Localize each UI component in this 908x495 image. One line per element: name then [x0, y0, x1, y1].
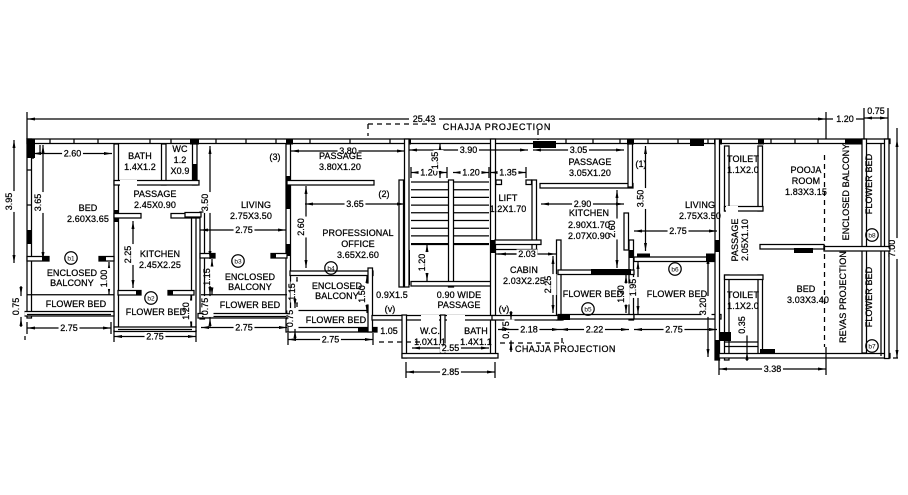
svg-text:LIVING: LIVING — [685, 200, 715, 210]
dimension 1.20 stair a — [411, 168, 447, 178]
dimension 0.75 flower flat1 — [11, 286, 25, 327]
svg-text:3.65X2.60: 3.65X2.60 — [337, 250, 379, 260]
wall: right strip middle — [824, 247, 890, 252]
svg-text:OFFICE: OFFICE — [341, 239, 375, 249]
svg-text:3.90: 3.90 — [460, 145, 478, 155]
svg-text:1.20: 1.20 — [836, 114, 854, 124]
dimension 1.20 stair landing — [417, 244, 431, 281]
wall: office top — [287, 181, 374, 186]
dimension 0.35 — [737, 315, 751, 361]
dimension 1.35 lift — [490, 168, 526, 178]
column top flat divider — [714, 139, 722, 145]
wall: toilet1 left — [725, 146, 730, 211]
dimension 2.60 kitchen right — [607, 190, 621, 268]
wall: office right / stair left — [399, 180, 404, 287]
svg-text:7.00: 7.00 — [887, 240, 897, 258]
wall: b5/b6 divider — [629, 240, 634, 320]
solid b6 balcony top right — [706, 254, 715, 263]
svg-text:(3): (3) — [269, 152, 280, 162]
svg-text:(v): (v) — [499, 304, 510, 314]
column top stair-left — [404, 139, 411, 145]
svg-text:b2: b2 — [147, 295, 155, 302]
svg-text:(v): (v) — [385, 304, 396, 314]
wall: flat2 kitchen bottom right piece — [168, 291, 194, 296]
svg-text:PASSAGE: PASSAGE — [730, 218, 740, 261]
dashed chajja small left — [379, 341, 420, 343]
dashed line right flat — [824, 155, 826, 347]
column top wc-right — [190, 139, 199, 145]
solid jamb bed bottom b — [99, 257, 106, 262]
svg-text:b7: b7 — [868, 343, 876, 350]
svg-text:1.1X2.0: 1.1X2.0 — [727, 165, 759, 175]
flower line b4 — [290, 310, 373, 312]
dimension 3.65 left — [33, 145, 47, 260]
solid chunk living right wall — [286, 176, 291, 209]
dimension 1.20 top right — [826, 118, 864, 120]
solid jamb kitchen bottom a — [136, 291, 141, 296]
dimension 2.75 b4 bottom — [288, 335, 373, 345]
dimension 1.15 b4 — [287, 277, 301, 307]
bubble b5 — [582, 303, 594, 315]
svg-text:0.75: 0.75 — [285, 310, 295, 328]
door gap wc — [421, 315, 439, 321]
svg-text:2.45X2.25: 2.45X2.25 — [139, 260, 181, 270]
dimension 2.85 — [406, 367, 495, 377]
svg-text:BED: BED — [79, 203, 98, 213]
svg-text:3.03X3.40: 3.03X3.40 — [787, 295, 829, 305]
wall: toilet1 right — [758, 146, 763, 211]
svg-text:2.75: 2.75 — [235, 323, 253, 333]
svg-text:CHAJJA PROJECTION: CHAJJA PROJECTION — [515, 344, 616, 354]
svg-text:2.03X2.25: 2.03X2.25 — [503, 276, 545, 286]
wall: cabin top — [495, 240, 541, 245]
svg-text:PROFESSIONAL: PROFESSIONAL — [322, 228, 393, 238]
dimension 0.75 top right — [864, 106, 888, 139]
svg-text:ROOM: ROOM — [792, 176, 820, 186]
svg-text:b8: b8 — [868, 232, 876, 239]
svg-text:2.45X0.90: 2.45X0.90 — [134, 200, 176, 210]
dimension 1.35 vertical — [430, 143, 444, 178]
svg-text:FLOWER BED: FLOWER BED — [220, 300, 281, 310]
bubble b7 — [866, 340, 878, 352]
svg-text:2.75: 2.75 — [669, 226, 687, 236]
dimension 3.95 left — [4, 140, 18, 263]
solid b5 bottom left — [558, 315, 570, 321]
wall: toilet1 bottom — [725, 207, 764, 212]
wall: lift bottom — [492, 250, 538, 255]
dashed chajja bottom — [500, 342, 564, 344]
svg-text:ENCLOSED: ENCLOSED — [225, 272, 276, 282]
inner line right strip — [880, 143, 882, 356]
wall: b4 balcony top — [290, 271, 373, 276]
svg-text:BATH: BATH — [464, 326, 488, 336]
b3 bottom inner line — [202, 316, 286, 318]
dimension 0.75 b3 — [200, 286, 214, 327]
svg-text:2.60X3.65: 2.60X3.65 — [67, 214, 109, 224]
toilet2 shelf b — [725, 346, 758, 348]
svg-text:LIFT: LIFT — [499, 193, 518, 203]
dimension 2.75 b6 bottom — [634, 325, 717, 335]
solid cabin left — [491, 240, 496, 253]
column top living-left-wall — [286, 139, 293, 145]
svg-text:PASSAGE: PASSAGE — [133, 189, 176, 199]
solid jamb b3 balcony b — [271, 254, 276, 259]
solid divider mid — [715, 240, 720, 252]
dimension 2.90 kitchen — [541, 199, 624, 209]
svg-text:b6: b6 — [671, 266, 679, 273]
wall: b6 / right flat divider — [715, 139, 720, 360]
dimension 1.15 b3 — [202, 259, 216, 295]
dimension 3.65 office — [305, 199, 405, 209]
svg-text:FLOWER BED: FLOWER BED — [563, 289, 624, 299]
svg-text:2.85: 2.85 — [442, 367, 460, 377]
dimension 3.50 living left — [200, 146, 214, 259]
solid pooja bottom — [794, 248, 813, 253]
dimension 1.00 balcony b1 — [99, 262, 113, 295]
wall piece stair top b — [526, 180, 532, 185]
dimension 3.80 passage — [291, 146, 405, 156]
wall: b5 flower top — [558, 270, 634, 275]
wall: flat1 bottom — [24, 312, 114, 317]
svg-text:b5: b5 — [584, 306, 592, 313]
svg-text:3.65: 3.65 — [346, 199, 364, 209]
svg-text:KITCHEN: KITCHEN — [140, 249, 180, 259]
flower bed line flat1 — [27, 294, 114, 296]
svg-text:3.50: 3.50 — [200, 194, 210, 212]
door gap bath — [120, 180, 137, 186]
svg-text:2.07X0.90: 2.07X0.90 — [568, 231, 610, 241]
small dash bottom left — [24, 336, 26, 340]
svg-text:ENCLOSED: ENCLOSED — [312, 281, 363, 291]
wall: passage1 right — [628, 144, 633, 187]
wall: top outer — [27, 139, 890, 144]
svg-text:3.05: 3.05 — [570, 145, 588, 155]
svg-text:1.0X1.1: 1.0X1.1 — [414, 337, 446, 347]
svg-text:(2): (2) — [378, 189, 389, 199]
solid cabin left low — [491, 315, 496, 320]
wall: wc right upper — [193, 144, 198, 185]
wall: below passage right piece — [171, 214, 199, 219]
svg-text:CABIN: CABIN — [510, 265, 538, 275]
wall: cabin bottom — [492, 316, 563, 321]
dimension 1.30 b5 — [616, 275, 630, 313]
wall: b3 bottom — [198, 314, 290, 319]
solid chunk stair left wall — [404, 250, 410, 285]
wall: flat2 kitchen bottom left piece — [118, 291, 141, 296]
solid jamb kitchen bottom b — [168, 291, 173, 296]
svg-text:1.4X1.1: 1.4X1.1 — [460, 337, 492, 347]
chajja dashes top — [368, 123, 440, 125]
svg-text:1.4X1.2: 1.4X1.2 — [124, 162, 156, 172]
dimension 0.75 center — [501, 311, 515, 351]
svg-text:2.25: 2.25 — [123, 246, 133, 264]
dimension 3.90 stairs — [409, 145, 528, 155]
door gap toilet1 — [726, 206, 738, 212]
svg-text:FLOWER BED: FLOWER BED — [864, 266, 874, 327]
svg-text:CHAJJA PROJECTION: CHAJJA PROJECTION — [443, 122, 551, 132]
solid wc right — [193, 164, 198, 185]
toilet2 shelf a — [725, 341, 758, 343]
wall: bath-kitchen left x114 — [114, 144, 119, 327]
svg-text:ENCLOSED BALCONY: ENCLOSED BALCONY — [841, 144, 851, 241]
dimension 0.75 b4 — [285, 298, 299, 339]
svg-text:BALCONY: BALCONY — [315, 291, 359, 301]
dimension 2.25 kitchen flat1 — [123, 221, 137, 288]
solid toilet2 bottom-left — [719, 332, 731, 341]
bubble b1 — [65, 252, 77, 264]
svg-text:1.83X3.15: 1.83X3.15 — [785, 187, 827, 197]
svg-text:2.75: 2.75 — [60, 323, 78, 333]
svg-text:BALCONY: BALCONY — [228, 282, 272, 292]
wall: wc bath bottom — [402, 354, 498, 359]
wall: flat2 bottom — [114, 327, 196, 332]
dimension 1.20 stair b — [453, 168, 489, 178]
wall: bed room bottom right piece — [99, 257, 114, 262]
svg-text:REVAS PROJECTION: REVAS PROJECTION — [838, 251, 848, 343]
flat1 bottom inner line — [27, 314, 111, 316]
svg-text:3.80X1.20: 3.80X1.20 — [319, 162, 361, 172]
wall: stair bottom landing — [411, 282, 495, 287]
wall: bed room bottom left piece — [27, 257, 49, 262]
dimension 1.20 flower b2 — [181, 295, 195, 327]
dimension 2.18 — [498, 325, 560, 335]
column top right balcony — [845, 139, 862, 145]
svg-text:TOILET: TOILET — [727, 290, 759, 300]
svg-text:25.43: 25.43 — [413, 114, 436, 124]
dimension 2.03 cabin — [498, 249, 556, 259]
svg-text:1.00: 1.00 — [99, 270, 109, 288]
wall: b6 bottom — [634, 315, 721, 320]
svg-text:0.75: 0.75 — [867, 106, 885, 116]
svg-text:3.20: 3.20 — [698, 298, 708, 316]
dimension 2.22 — [560, 325, 629, 335]
svg-text:3.38: 3.38 — [764, 364, 782, 374]
svg-text:b1: b1 — [67, 255, 75, 262]
svg-text:3.65: 3.65 — [33, 194, 43, 212]
svg-text:1.20: 1.20 — [462, 168, 480, 178]
svg-text:FLOWER BED: FLOWER BED — [647, 289, 708, 299]
dimension 1.50 b4 — [357, 275, 371, 313]
wall: bath wc bottom — [114, 181, 199, 186]
wall: b5 bottom — [558, 315, 634, 320]
solid bottom right — [760, 349, 775, 354]
wall: stair left inner — [405, 139, 410, 287]
dimension 2.60 office — [296, 186, 310, 268]
svg-text:2.75X3.50: 2.75X3.50 — [230, 211, 272, 221]
bubble b8 — [866, 229, 878, 241]
svg-text:1.95: 1.95 — [628, 279, 638, 297]
column top living-right — [690, 139, 704, 146]
chajja dashes top corner — [367, 124, 369, 136]
svg-text:2.75: 2.75 — [235, 225, 253, 235]
svg-text:0.9X1.5: 0.9X1.5 — [376, 290, 408, 300]
lift walls — [532, 180, 537, 254]
flower line b3 — [201, 294, 287, 296]
door gap bath — [447, 315, 465, 321]
column flat1 kitchen left — [114, 210, 119, 222]
wall: b4 balcony right — [368, 268, 373, 332]
svg-text:1.35: 1.35 — [499, 168, 517, 178]
window tick left wall a — [27, 169, 32, 171]
wall: kitchen right jog — [624, 213, 629, 250]
svg-text:2.75: 2.75 — [322, 335, 340, 345]
wall: passage1 bottom — [540, 184, 633, 189]
dimension 2.75 flat2 bottom — [114, 332, 196, 342]
svg-text:2.60: 2.60 — [296, 218, 306, 236]
svg-text:2.05X1.10: 2.05X1.10 — [740, 219, 750, 261]
wall: bottom right — [719, 354, 890, 359]
svg-text:PASSAGE: PASSAGE — [437, 300, 480, 310]
svg-text:2.03: 2.03 — [518, 249, 536, 259]
bubble b4 — [325, 262, 337, 274]
svg-text:BATH: BATH — [128, 151, 152, 161]
wall: flat1/b3 divider lower — [192, 215, 197, 327]
svg-text:0.35: 0.35 — [737, 316, 747, 334]
wall piece left of living bottom — [185, 213, 201, 218]
dimension 3.20 — [698, 256, 712, 357]
chajja dash top right — [537, 130, 539, 140]
solid jamb b3 balcony a — [210, 254, 215, 259]
wall: b3 balcony top right piece — [271, 254, 287, 259]
svg-text:0.75: 0.75 — [11, 298, 21, 316]
svg-text:FLOWER BED: FLOWER BED — [126, 307, 187, 317]
svg-text:KITCHEN: KITCHEN — [569, 208, 609, 218]
svg-text:b4: b4 — [327, 265, 335, 272]
svg-text:0.75: 0.75 — [200, 298, 210, 316]
bubble b3 — [232, 255, 244, 267]
svg-text:2.90X1.70: 2.90X1.70 — [568, 220, 610, 230]
column: top wall notch right of stairs — [533, 141, 556, 148]
svg-text:(1): (1) — [635, 159, 646, 169]
svg-text:3.05X1.20: 3.05X1.20 — [569, 168, 611, 178]
wall: wc/bath divider — [441, 315, 446, 354]
svg-text:FLOWER BED: FLOWER BED — [306, 315, 367, 325]
dimension 2.25 cabin — [543, 256, 557, 313]
column left wall lower — [27, 230, 32, 244]
svg-text:2.75: 2.75 — [146, 332, 164, 342]
wall: wc left — [402, 315, 407, 358]
wall: left outer — [27, 139, 32, 318]
svg-text:1.15: 1.15 — [202, 268, 212, 286]
wall: b6 balcony top — [634, 257, 719, 262]
small dash bottom right — [893, 357, 900, 359]
column top-left — [27, 139, 35, 158]
wall: toilet2 top — [725, 275, 764, 280]
column top passage1-right — [627, 139, 634, 145]
svg-text:3.95: 3.95 — [4, 193, 14, 211]
wall: pooja bottom — [760, 245, 824, 250]
wall: bath/wc divider — [162, 144, 167, 185]
dimension 2.75 b3 bottom — [201, 323, 287, 333]
svg-text:FLOWER BED: FLOWER BED — [46, 299, 107, 309]
solid jamb passage right — [189, 214, 197, 219]
dimension 7.00 — [887, 139, 901, 358]
dimension 2.55 — [412, 343, 489, 353]
svg-text:ENCLOSED: ENCLOSED — [47, 268, 98, 278]
column top toilet-right — [758, 139, 764, 145]
dimension 1.95 b6 — [628, 261, 642, 314]
wall: right outer — [885, 139, 890, 359]
wall: b4 bottom — [288, 328, 377, 333]
svg-text:1.2: 1.2 — [174, 155, 187, 165]
svg-text:PASSAGE: PASSAGE — [568, 157, 611, 167]
svg-text:1.2X1.70: 1.2X1.70 — [490, 204, 527, 214]
solid chunk living right wall low — [286, 244, 291, 256]
wall: cabin right — [557, 240, 562, 320]
kitchen counter — [591, 269, 631, 275]
svg-text:2.75: 2.75 — [665, 325, 683, 335]
svg-text:2.60: 2.60 — [64, 149, 82, 159]
svg-text:2.18: 2.18 — [520, 325, 538, 335]
svg-text:POOJA: POOJA — [790, 165, 821, 175]
svg-text:1.05: 1.05 — [380, 326, 398, 336]
staircase treads — [411, 182, 489, 245]
dimension 25.43 overall width — [27, 112, 826, 139]
solid b4 bottom right — [358, 328, 377, 333]
svg-text:0.90 WIDE: 0.90 WIDE — [437, 290, 481, 300]
dashed chajja bottom corner — [561, 338, 563, 343]
dimension 3.50 living right — [636, 146, 650, 251]
svg-text:BALCONY: BALCONY — [50, 278, 94, 288]
window tick left wall b — [27, 204, 32, 206]
wall: wc bath top — [372, 316, 495, 321]
window ticks top wall — [49, 139, 51, 144]
svg-text:1.20: 1.20 — [417, 254, 427, 272]
svg-text:b3: b3 — [234, 258, 242, 265]
wall: stair right / cabin left — [491, 139, 496, 358]
dimension 2.75 flat1 bottom — [27, 323, 111, 333]
solid jamb bed bottom a — [42, 257, 49, 262]
svg-text:TOILET: TOILET — [727, 154, 759, 164]
svg-text:FLOWER BED: FLOWER BED — [864, 153, 874, 214]
svg-text:1.35: 1.35 — [430, 152, 440, 170]
bubble b2 — [145, 292, 157, 304]
svg-text:2.22: 2.22 — [586, 325, 604, 335]
svg-text:1.1X2.0: 1.1X2.0 — [727, 301, 759, 311]
solid b6 balcony top — [637, 254, 650, 258]
svg-text:W.C.: W.C. — [420, 326, 440, 336]
bubble b6 — [669, 263, 681, 275]
wall piece stair top a — [496, 180, 502, 185]
dimension 3.05 — [533, 145, 624, 155]
solid divider low — [715, 340, 720, 360]
svg-text:X0.9: X0.9 — [171, 166, 190, 176]
wall: right inner — [862, 139, 867, 353]
dimension 2.60 flat1 — [33, 149, 112, 159]
wall: living right / office left — [286, 144, 291, 332]
dimension 2.75 living right — [634, 226, 717, 236]
svg-text:LIVING: LIVING — [241, 200, 271, 210]
wall: toilet2 left — [725, 275, 730, 360]
wall: toilet2 right — [758, 275, 763, 356]
dimension 3.38 — [719, 364, 826, 374]
dimension 2.75 living left — [200, 225, 286, 235]
column top-left repaint — [27, 139, 35, 158]
svg-text:2.75X3.50: 2.75X3.50 — [679, 211, 721, 221]
flat2 bottom inner line — [118, 329, 192, 331]
wall: living-left lower / b3 balcony left — [200, 212, 205, 319]
solid b5/b6 divider — [629, 250, 634, 258]
svg-text:PASSAGE: PASSAGE — [319, 151, 362, 161]
wall: below passage left piece — [114, 214, 141, 219]
svg-text:WC: WC — [172, 144, 188, 154]
svg-text:BED: BED — [797, 284, 816, 294]
wall: b3 balcony top left piece — [200, 254, 215, 259]
svg-text:3.50: 3.50 — [636, 190, 646, 208]
stair stringer — [449, 180, 454, 287]
